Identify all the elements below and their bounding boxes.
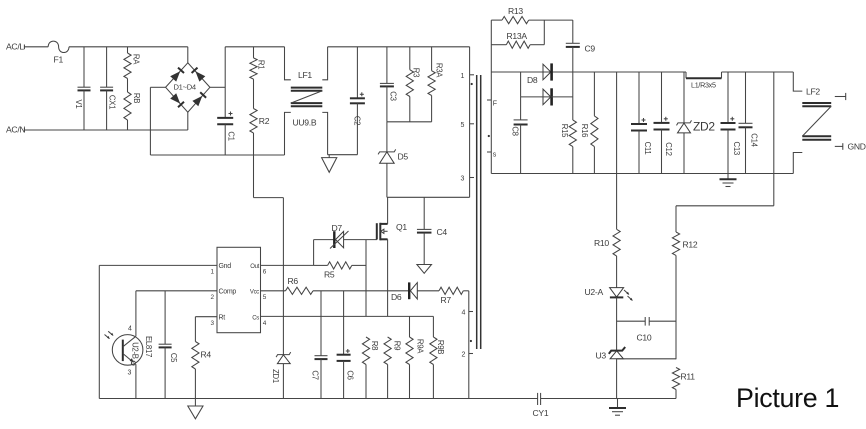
svg-text:C6: C6 [345, 370, 354, 379]
svg-text:RA: RA [131, 54, 140, 65]
svg-text:3: 3 [461, 176, 465, 183]
svg-text:Vcc: Vcc [250, 290, 259, 296]
resistor R7 [439, 287, 463, 294]
resistor R11 [672, 368, 679, 390]
diode D8 lower [543, 89, 551, 105]
resistor RA [127, 47, 129, 53]
wire rail seg2 [225, 46, 284, 48]
wire mid return rail [150, 154, 284, 156]
capacitor C5 [164, 291, 166, 344]
capacitor C12 [661, 72, 663, 123]
transistor Q1 [376, 223, 378, 239]
svg-text:R3: R3 [412, 68, 421, 77]
opto-transistor U2-B EL817 [112, 335, 143, 366]
svg-text:s: s [493, 152, 497, 159]
wire R10 feed [616, 72, 618, 229]
pin 3 Rt wire [195, 316, 217, 318]
pin 5 Vcc wire [261, 290, 286, 292]
resistor R8 [362, 337, 369, 365]
svg-text:AC/L: AC/L [6, 42, 24, 52]
capacitor C11 [638, 72, 640, 124]
shunt regulator U3 [609, 347, 625, 354]
diode D1 (bridge upper-left) [170, 71, 180, 81]
svg-text:5: 5 [461, 122, 465, 129]
capacitor C1 [224, 47, 226, 118]
resistor R2 [253, 79, 255, 108]
capacitor C7 [320, 291, 322, 356]
wire IC ground drop [98, 265, 100, 398]
svg-text:ZD1: ZD1 [271, 369, 280, 383]
wire LED to U3 [616, 297, 618, 350]
svg-text:2: 2 [211, 294, 215, 301]
wire clamp bottom [387, 121, 432, 123]
ground below C4 [417, 265, 432, 274]
svg-text:C3: C3 [389, 91, 398, 100]
svg-text:C7: C7 [310, 370, 319, 379]
wire R5 right node [365, 240, 367, 317]
svg-text:C8: C8 [510, 126, 519, 135]
svg-text:LF2: LF2 [806, 87, 820, 97]
svg-text:F: F [493, 101, 497, 108]
svg-text:R6: R6 [288, 276, 299, 286]
svg-text:D5: D5 [398, 152, 409, 162]
svg-text:Q1: Q1 [396, 222, 407, 232]
svg-text:Comp: Comp [219, 289, 237, 296]
capacitor C3 [386, 47, 388, 83]
svg-text:5: 5 [263, 294, 267, 301]
svg-text:3: 3 [211, 320, 215, 327]
resistor RB [127, 79, 129, 93]
svg-text:R15: R15 [560, 124, 569, 138]
svg-text:R3A: R3A [434, 63, 443, 78]
svg-text:C5: C5 [169, 353, 178, 363]
svg-text:L1/R3x5: L1/R3x5 [691, 81, 716, 90]
svg-text:Gnd: Gnd [219, 263, 232, 270]
pin 1 Gnd wire [99, 264, 217, 266]
pin s secondary [487, 151, 491, 153]
ground below U3 [617, 399, 619, 408]
svg-text:C2: C2 [352, 116, 361, 125]
svg-text:3: 3 [128, 370, 132, 377]
svg-text:C11: C11 [643, 142, 652, 155]
wire rail seg3 [328, 46, 470, 48]
zener ZD1 [282, 346, 284, 355]
svg-text:C12: C12 [664, 142, 673, 155]
capacitor C8 [520, 97, 522, 120]
wire bridge bottom leg [187, 112, 189, 130]
svg-text:6: 6 [263, 269, 267, 276]
svg-text:EL817: EL817 [144, 336, 153, 357]
svg-text:C4: C4 [437, 227, 448, 237]
svg-text:V1: V1 [74, 100, 83, 109]
wire R2 branch down [253, 133, 255, 198]
capacitor C4 [423, 197, 425, 229]
pin 1 primary [470, 74, 474, 76]
ground below C13 [727, 174, 729, 180]
capacitor C2 [356, 47, 358, 98]
capacitor C10 [617, 320, 646, 322]
resistor R13A [491, 44, 506, 46]
diode D6 [408, 282, 410, 299]
svg-text:R5: R5 [324, 270, 335, 280]
diode D3 (bridge lower-left) [170, 93, 180, 103]
capacitor CX1 [106, 47, 108, 87]
svg-text:1: 1 [211, 269, 215, 276]
svg-text:R7: R7 [441, 295, 452, 305]
wire AC/N rail [24, 129, 187, 131]
pin F secondary [487, 99, 491, 101]
resistor R4 [194, 317, 196, 342]
wire primary bottom rail [99, 398, 537, 400]
svg-text:U3: U3 [596, 351, 607, 361]
op-amp U1 PWM controller box [217, 247, 261, 332]
svg-text:R9: R9 [393, 341, 402, 350]
svg-text:R4: R4 [201, 350, 212, 360]
diode D5 [386, 122, 388, 152]
svg-text:4: 4 [462, 310, 466, 317]
svg-text:R8: R8 [370, 341, 379, 350]
svg-text:1: 1 [461, 73, 465, 80]
wire secondary top rail [491, 71, 686, 73]
wire U3 ref junction [617, 358, 676, 360]
pin 6 Out wire [261, 264, 314, 266]
capacitor C9 [572, 20, 574, 43]
resistor R3 [409, 47, 411, 70]
varistor V1 [83, 47, 85, 87]
svg-text:R10: R10 [594, 238, 609, 248]
svg-text:GND: GND [848, 142, 866, 152]
svg-text:U2-B: U2-B [131, 342, 140, 359]
wire rail after L1 [722, 71, 794, 73]
wire bridge right output [210, 86, 225, 88]
resistor R10 [613, 229, 620, 256]
svg-text:R11: R11 [681, 372, 696, 382]
capacitor C6 [343, 291, 345, 355]
inductor LF1 [285, 47, 291, 80]
resistor R6 [286, 287, 314, 294]
resistor R12 [675, 206, 677, 232]
svg-text:R16: R16 [580, 124, 589, 137]
pin 2 Comp wire [136, 290, 217, 292]
svg-text:D7: D7 [332, 223, 343, 233]
wire AC/L rail [69, 46, 188, 48]
svg-text:D8: D8 [527, 75, 538, 85]
pin 2 aux [469, 353, 473, 355]
pin 4 Cs wire [261, 315, 434, 317]
resistor R1 [253, 47, 255, 58]
diode D8 upper [543, 64, 551, 80]
transformer T1 primary winding [469, 47, 471, 198]
fuse F1 [48, 41, 69, 52]
capacitor C13 [727, 72, 729, 123]
wire Vcc line [313, 290, 409, 292]
svg-text:Cs: Cs [252, 316, 259, 322]
svg-text:D1~D4: D1~D4 [174, 83, 196, 92]
wire D8 lower path [520, 72, 522, 97]
svg-text:C14: C14 [749, 133, 758, 147]
svg-text:4: 4 [263, 320, 267, 327]
resistor R9A [409, 316, 411, 337]
svg-text:R12: R12 [683, 240, 698, 250]
svg-text:R1: R1 [256, 60, 265, 69]
svg-text:Out: Out [250, 264, 259, 270]
transformer T1 core [476, 75, 478, 349]
svg-text:U2-A: U2-A [585, 287, 604, 297]
svg-text:R13A: R13A [507, 31, 528, 41]
pin 3 primary [470, 177, 474, 179]
bridge rectifier D1-D4 diamond [166, 63, 210, 112]
resistor R5 [313, 240, 315, 266]
ground primary near LF1 [328, 155, 330, 158]
wire Q1 source [387, 239, 389, 316]
node + output terminal [835, 96, 846, 98]
svg-text:R9A: R9A [415, 339, 424, 354]
svg-text:C10: C10 [637, 333, 652, 343]
svg-text:Picture 1: Picture 1 [736, 383, 839, 413]
diode D4 (bridge lower-right) [192, 96, 202, 106]
inductor LF2 [793, 72, 802, 91]
svg-text:LF1: LF1 [298, 70, 312, 80]
node GND output terminal [835, 145, 843, 147]
inductor L1 [685, 72, 687, 78]
svg-text:CX1: CX1 [107, 95, 116, 109]
resistor R16 [593, 72, 595, 116]
resistor R13 [491, 19, 502, 21]
svg-text:ZD2: ZD2 [693, 120, 715, 134]
wire bridge left to return [150, 86, 165, 88]
diode D2 (bridge upper-right) [195, 71, 205, 81]
pin 4 aux [469, 311, 473, 313]
svg-text:2: 2 [462, 352, 466, 359]
wire secondary bottom rail [491, 173, 793, 175]
transformer T1 aux winding [468, 291, 470, 399]
wire bridge top to AC/L [187, 47, 189, 63]
svg-text:R2: R2 [259, 116, 270, 126]
svg-text:RB: RB [132, 93, 141, 103]
capacitor CY1 [537, 393, 539, 405]
svg-text:C13: C13 [732, 141, 741, 154]
svg-text:Rt: Rt [219, 315, 226, 322]
zener ZD2 [683, 72, 685, 123]
diode D7 [314, 239, 335, 241]
svg-text:R9B: R9B [436, 340, 445, 354]
resistor R12 feed wire [773, 72, 775, 206]
resistor R3A [431, 47, 433, 71]
svg-text:AC/N: AC/N [6, 125, 25, 135]
svg-text:F1: F1 [54, 55, 64, 65]
wire secondary bottom ground rail [541, 398, 676, 400]
resistor R9B [432, 316, 434, 337]
resistor R15 [572, 72, 574, 120]
svg-text:CY1: CY1 [533, 408, 549, 418]
svg-text:C1: C1 [226, 131, 235, 140]
capacitor C14 [745, 72, 747, 123]
led U2-A [616, 256, 618, 288]
svg-text:4: 4 [128, 326, 132, 333]
resistor R9 [384, 337, 391, 365]
ground below R4 [194, 399, 196, 407]
svg-text:UU9.B: UU9.B [293, 118, 317, 128]
wire LF1 gnd link [328, 154, 358, 156]
svg-text:C9: C9 [585, 44, 596, 54]
svg-text:D6: D6 [391, 292, 402, 302]
svg-text:R13: R13 [508, 6, 523, 16]
transformer T1 secondary winding [490, 20, 492, 173]
pin 5 primary [470, 123, 474, 125]
wire primary winding bottom [387, 196, 470, 198]
